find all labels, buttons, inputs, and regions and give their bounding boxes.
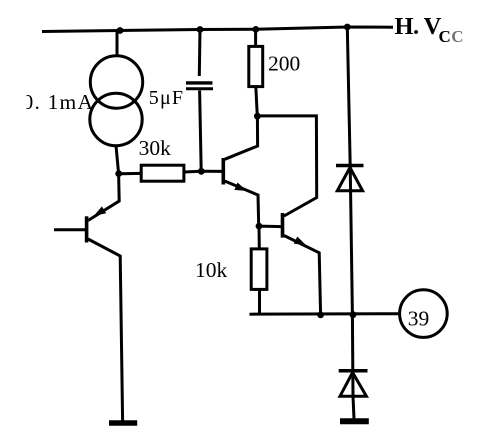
svg-text:200: 200 [268,51,300,75]
svg-text:H. V: H. V [395,13,442,40]
svg-text:39: 39 [408,306,430,330]
svg-text:30k: 30k [139,136,172,160]
svg-text:10k: 10k [195,258,228,282]
svg-text:0. 1mA: 0. 1mA [23,90,95,114]
svg-text:CC: CC [439,27,465,46]
svg-text:5μF: 5μF [149,87,184,109]
